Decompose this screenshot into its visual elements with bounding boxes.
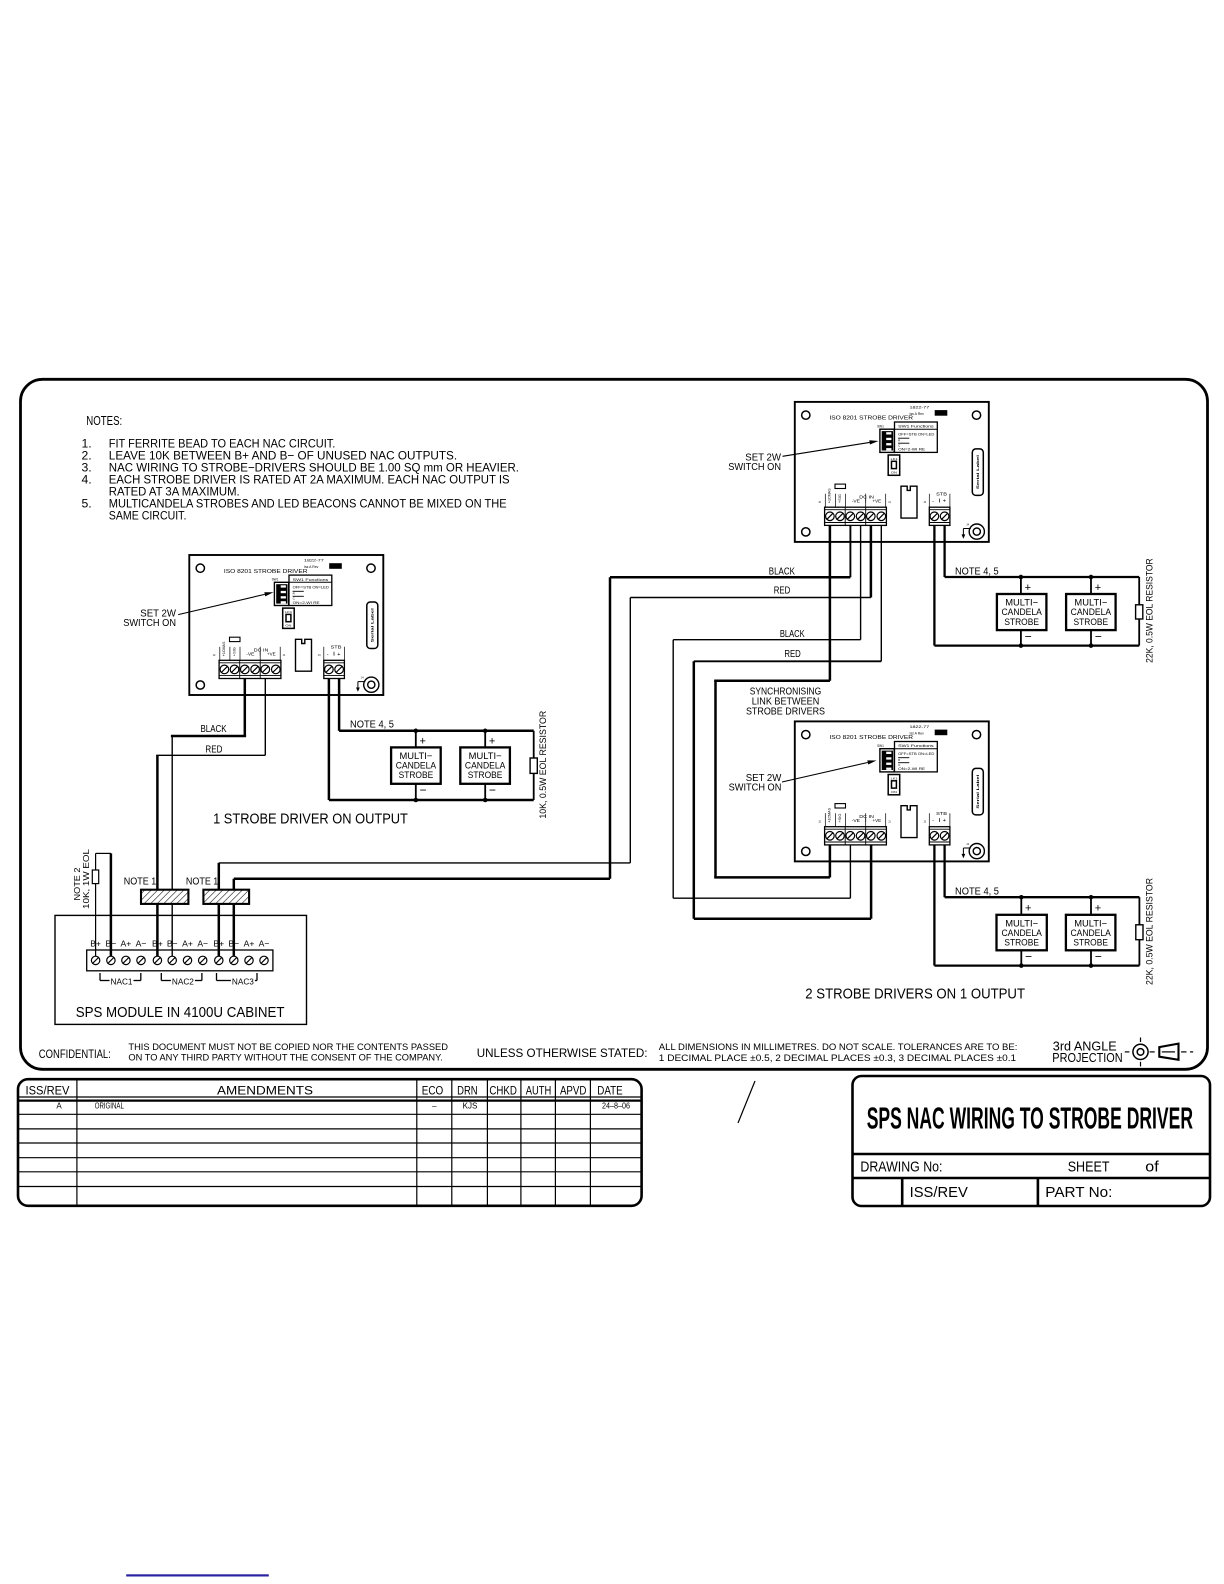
svg-text:A−: A−	[136, 939, 147, 949]
svg-text:STROBE: STROBE	[1074, 617, 1109, 628]
svg-text:B−: B−	[106, 939, 117, 949]
svg-text:ON TO ANY THIRD PARTY WITHOUT: ON TO ANY THIRD PARTY WITHOUT THE CONSEN…	[128, 1052, 442, 1062]
svg-text:ALL DIMENSIONS IN MILLIMETRES.: ALL DIMENSIONS IN MILLIMETRES. DO NOT SC…	[659, 1042, 1018, 1052]
svg-text:STROBE: STROBE	[1073, 938, 1108, 949]
svg-text:A−: A−	[197, 939, 208, 949]
svg-text:A+: A+	[121, 939, 132, 949]
svg-text:NOTES:: NOTES:	[86, 413, 122, 428]
svg-text:24–8–06: 24–8–06	[602, 1101, 630, 1110]
svg-text:B−: B−	[167, 939, 178, 949]
svg-text:B+: B+	[90, 939, 101, 949]
svg-text:CHKD: CHKD	[489, 1085, 517, 1097]
svg-text:5.: 5.	[82, 496, 92, 510]
svg-text:THIS DOCUMENT MUST NOT BE COPI: THIS DOCUMENT MUST NOT BE COPIED NOR THE…	[128, 1042, 448, 1052]
svg-text:NAC2: NAC2	[172, 977, 195, 986]
svg-text:SPS MODULE IN 4100U CABINET: SPS MODULE IN 4100U CABINET	[76, 1004, 285, 1021]
svg-text:10K, 0.5W EOL RESISTOR: 10K, 0.5W EOL RESISTOR	[538, 711, 548, 819]
svg-text:ECO: ECO	[422, 1085, 444, 1097]
svg-text:DRAWING No:: DRAWING No:	[860, 1159, 942, 1175]
svg-text:STROBE: STROBE	[1004, 938, 1039, 949]
svg-text:BLACK: BLACK	[201, 724, 227, 735]
svg-text:A: A	[56, 1101, 62, 1110]
svg-text:NOTE 4, 5: NOTE 4, 5	[955, 567, 999, 578]
svg-text:SWITCH ON: SWITCH ON	[728, 461, 781, 473]
svg-text:B−: B−	[228, 939, 239, 949]
svg-text:NOTE 1: NOTE 1	[186, 877, 219, 888]
svg-text:BLACK: BLACK	[769, 566, 795, 577]
svg-text:+: +	[489, 735, 495, 747]
svg-text:RED: RED	[774, 585, 791, 596]
svg-text:ISS/REV: ISS/REV	[910, 1185, 969, 1201]
svg-text:RED: RED	[784, 649, 800, 660]
svg-text:10K, 1W EOL: 10K, 1W EOL	[81, 849, 91, 909]
svg-text:2 STROBE DRIVERS ON 1 OUTPUT: 2 STROBE DRIVERS ON 1 OUTPUT	[805, 985, 1025, 1002]
svg-text:STROBE: STROBE	[1004, 617, 1039, 628]
svg-text:RED: RED	[205, 744, 222, 755]
svg-text:B+: B+	[213, 939, 224, 949]
svg-text:KJS: KJS	[463, 1101, 478, 1110]
svg-text:22K, 0.5W EOL RESISTOR: 22K, 0.5W EOL RESISTOR	[1144, 558, 1154, 663]
svg-text:SAME CIRCUIT.: SAME CIRCUIT.	[109, 509, 187, 523]
svg-text:SWITCH ON: SWITCH ON	[729, 781, 782, 793]
svg-text:+: +	[1025, 582, 1031, 594]
svg-text:22K, 0.5W EOL RESISTOR: 22K, 0.5W EOL RESISTOR	[1144, 878, 1154, 985]
svg-text:SHEET: SHEET	[1068, 1159, 1110, 1175]
svg-text:AMENDMENTS: AMENDMENTS	[217, 1085, 313, 1097]
svg-text:NAC3: NAC3	[232, 977, 255, 986]
svg-text:SWITCH ON: SWITCH ON	[123, 617, 176, 629]
svg-text:NOTE 4, 5: NOTE 4, 5	[350, 720, 394, 731]
svg-text:1 DECIMAL PLACE ±0.5, 2 DECIMA: 1 DECIMAL PLACE ±0.5, 2 DECIMAL PLACES ±…	[659, 1053, 1016, 1063]
svg-text:of: of	[1145, 1159, 1159, 1175]
svg-text:BLACK: BLACK	[780, 629, 805, 640]
svg-text:A+: A+	[244, 939, 255, 949]
svg-text:SPS NAC WIRING TO STROBE DRIVE: SPS NAC WIRING TO STROBE DRIVER	[867, 1101, 1193, 1136]
svg-text:STROBE: STROBE	[399, 770, 434, 781]
svg-text:DRN: DRN	[457, 1085, 478, 1097]
svg-text:STROBE: STROBE	[468, 770, 503, 781]
svg-text:−: −	[1095, 629, 1102, 643]
svg-text:APVD: APVD	[560, 1085, 587, 1097]
svg-text:CONFIDENTIAL:: CONFIDENTIAL:	[39, 1047, 111, 1061]
svg-text:+: +	[1025, 903, 1031, 915]
svg-text:−: −	[1095, 950, 1102, 964]
svg-text:+: +	[1095, 582, 1101, 594]
svg-text:UNLESS OTHERWISE STATED:: UNLESS OTHERWISE STATED:	[477, 1046, 648, 1060]
svg-text:B+: B+	[152, 939, 163, 949]
svg-text:–: –	[432, 1101, 437, 1110]
svg-text:NOTE 4, 5: NOTE 4, 5	[955, 887, 999, 898]
svg-text:PART No:: PART No:	[1045, 1185, 1112, 1201]
svg-text:NOTE 1: NOTE 1	[124, 877, 157, 888]
svg-text:+: +	[1095, 903, 1101, 915]
svg-text:−: −	[420, 783, 427, 797]
svg-text:DATE: DATE	[597, 1085, 623, 1097]
svg-text:AUTH: AUTH	[526, 1085, 552, 1097]
svg-text:STROBE DRIVERS: STROBE DRIVERS	[746, 706, 825, 718]
svg-text:PROJECTION: PROJECTION	[1052, 1051, 1122, 1065]
svg-text:ISS/REV: ISS/REV	[26, 1085, 70, 1097]
svg-text:ORIGINAL: ORIGINAL	[95, 1101, 125, 1110]
svg-text:−: −	[1025, 950, 1032, 964]
svg-text:4.: 4.	[82, 472, 92, 486]
svg-text:NAC1: NAC1	[111, 977, 134, 986]
svg-text:A−: A−	[259, 939, 270, 949]
svg-text:1 STROBE DRIVER ON OUTPUT: 1 STROBE DRIVER ON OUTPUT	[213, 810, 408, 827]
svg-text:A+: A+	[182, 939, 193, 949]
svg-text:−: −	[489, 783, 496, 797]
svg-text:+: +	[420, 735, 426, 747]
svg-text:−: −	[1025, 629, 1032, 643]
